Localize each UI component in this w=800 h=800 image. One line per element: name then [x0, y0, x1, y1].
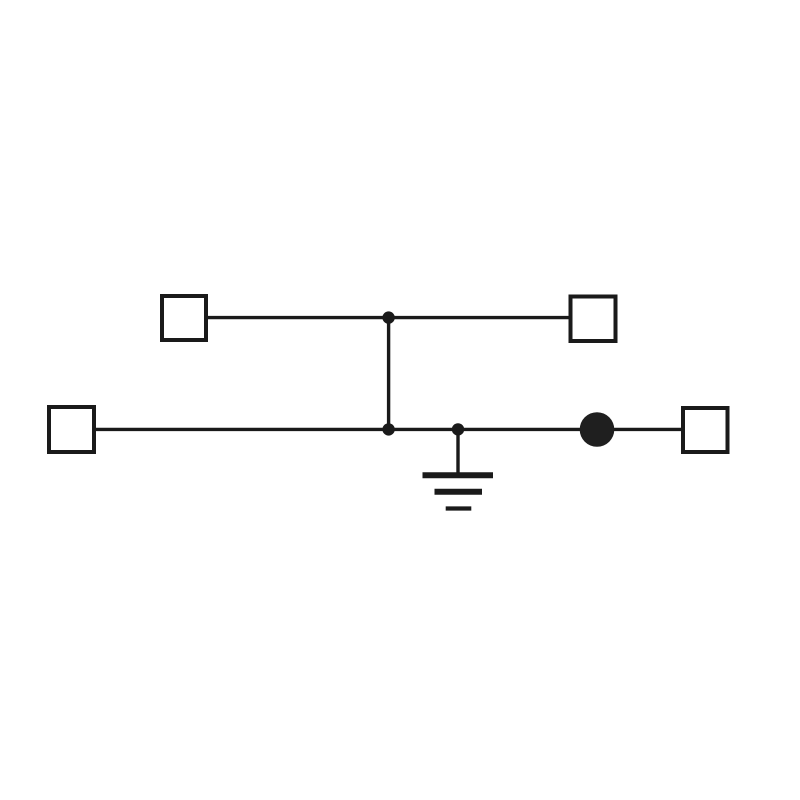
wire bottom horizontal [94, 428, 683, 431]
ground stem [456, 429, 459, 475]
terminal square middle-left [49, 407, 94, 452]
ground [423, 475, 494, 508]
junction dot top [382, 311, 394, 323]
terminal square top-left [162, 296, 206, 340]
terminal square middle-right [683, 408, 728, 452]
junction dot bottom bridge [382, 423, 394, 435]
junction dot ground tap [452, 423, 464, 435]
wire vertical bridge [387, 318, 390, 430]
wire top horizontal [206, 316, 570, 319]
filled circle test point [580, 412, 615, 447]
terminal square top-right [571, 297, 616, 342]
